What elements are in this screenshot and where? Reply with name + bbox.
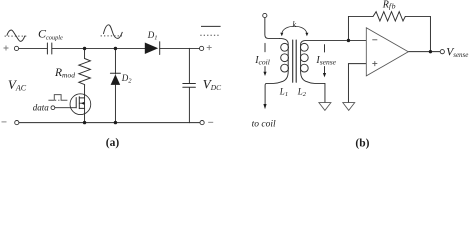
- svg-text:Rfb: Rfb: [382, 0, 396, 11]
- svg-text:k: k: [293, 20, 297, 29]
- svg-text:data: data: [33, 102, 50, 112]
- svg-text:(b): (b): [355, 138, 369, 150]
- svg-text:to coil: to coil: [252, 120, 276, 130]
- svg-text:Icoil: Icoil: [254, 55, 270, 67]
- svg-text:(a): (a): [106, 137, 120, 149]
- svg-text:Isense: Isense: [315, 55, 336, 67]
